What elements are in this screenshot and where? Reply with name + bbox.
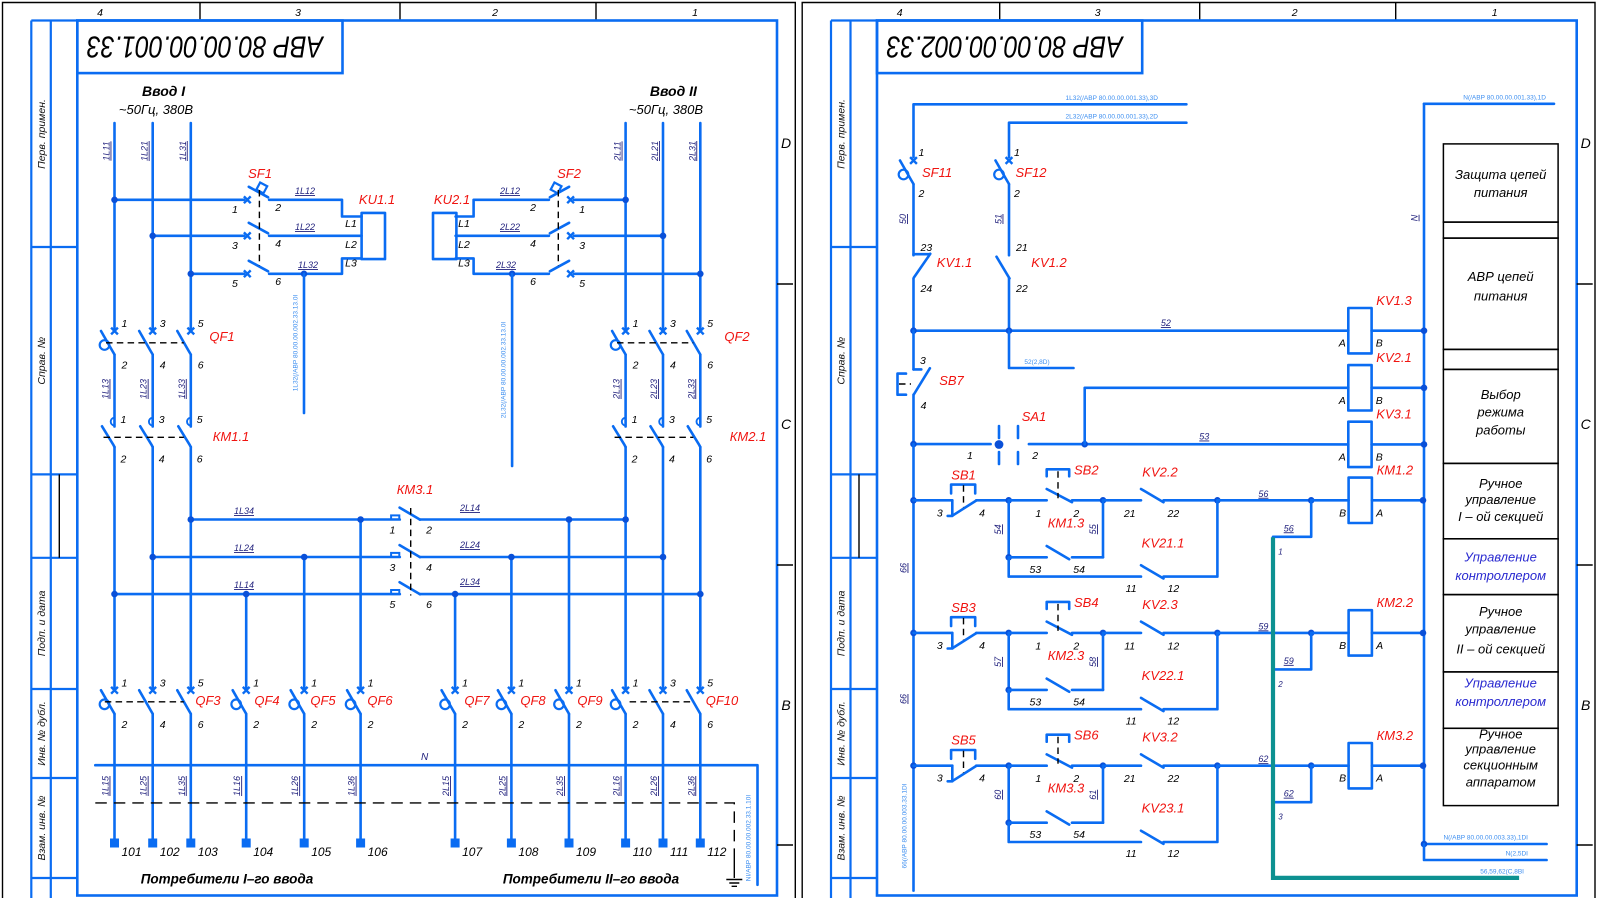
load 104 (242, 839, 274, 860)
junction (1214, 762, 1221, 769)
svg-text:1: 1 (462, 677, 468, 689)
svg-text:КМ1.3: КМ1.3 (1048, 515, 1085, 530)
svg-text:КМ1.2: КМ1.2 (1377, 463, 1414, 478)
description box protection (1443, 144, 1558, 222)
junction (1005, 687, 1012, 694)
wire stub 1L32 to sheet 2 (293, 274, 305, 413)
svg-text:3: 3 (920, 355, 926, 367)
svg-text:6: 6 (275, 276, 281, 288)
svg-text:QF7: QF7 (464, 693, 490, 708)
junction (910, 441, 917, 448)
junction N return КМ1.2 (1420, 497, 1427, 504)
svg-text:Выбор: Выбор (1481, 387, 1521, 402)
strip connector line (858, 474, 860, 557)
svg-text:2: 2 (631, 454, 638, 466)
svg-text:2L31: 2L31 (687, 141, 697, 162)
wire 2L26 to load 111 (649, 714, 663, 838)
svg-text:2: 2 (632, 719, 639, 731)
wire reference N from sheet 1 (1424, 95, 1554, 104)
junction (1005, 554, 1012, 561)
svg-text:2: 2 (121, 719, 128, 731)
svg-text:2: 2 (1291, 7, 1298, 19)
circuit breaker QF5 (289, 677, 336, 731)
load 105 (300, 839, 332, 860)
svg-text:53: 53 (1030, 564, 1042, 576)
svg-text:2: 2 (367, 719, 374, 731)
pushbutton SB6 (1009, 728, 1103, 786)
contactor coil КМ3.2 (1311, 728, 1423, 788)
svg-text:104: 104 (253, 845, 273, 859)
drawing frame (77, 21, 777, 896)
svg-text:2L21: 2L21 (650, 141, 660, 162)
svg-text:работы: работы (1475, 423, 1526, 438)
circuit breaker QF7 (440, 677, 490, 731)
load 111 (659, 839, 689, 860)
svg-text:QF5: QF5 (310, 693, 336, 708)
svg-text:L3: L3 (458, 258, 470, 270)
wire 2L25 to load 108 (497, 714, 511, 838)
svg-text:66: 66 (899, 563, 909, 573)
svg-text:Справ. №: Справ. № (836, 337, 848, 385)
description box manual section I (1443, 463, 1558, 538)
svg-text:2: 2 (632, 360, 639, 372)
svg-text:51: 51 (994, 214, 1004, 224)
svg-text:A: A (1375, 507, 1383, 519)
wire SF1 pole2 from bus 1L21 (153, 235, 244, 238)
junction (1308, 762, 1315, 769)
svg-text:KV3.1: KV3.1 (1376, 407, 1411, 422)
svg-text:22: 22 (1015, 283, 1028, 295)
svg-text:КМ3.2: КМ3.2 (1377, 728, 1414, 743)
svg-text:1: 1 (389, 525, 395, 537)
svg-text:QF9: QF9 (577, 693, 602, 708)
load 108 (507, 839, 539, 860)
wire reference 2L32 from sheet 1 (1009, 114, 1186, 158)
svg-text:57: 57 (993, 656, 1003, 667)
svg-text:C: C (781, 416, 792, 432)
auxiliary contact КМ1.3 (1009, 500, 1103, 576)
load 107 (451, 839, 484, 860)
svg-text:3: 3 (579, 240, 585, 252)
description box controller control I (1443, 539, 1558, 595)
sheet outer black border (802, 3, 1595, 898)
wire stub 2L32 to sheet 2 (500, 274, 512, 466)
svg-text:2L22: 2L22 (499, 222, 520, 232)
wire step 59 to controller line (1273, 633, 1311, 689)
svg-text:KV1.2: KV1.2 (1031, 255, 1067, 270)
svg-text:QF4: QF4 (254, 693, 279, 708)
junction node 624 (1005, 762, 1012, 769)
circuit breaker QF9 (554, 677, 602, 731)
svg-text:2: 2 (918, 188, 925, 200)
description box ABP supply (1443, 238, 1558, 349)
svg-text:контроллером: контроллером (1455, 568, 1546, 583)
svg-text:KU1.1: KU1.1 (359, 192, 395, 207)
pushbutton SB2 (1009, 462, 1103, 520)
svg-text:SF1: SF1 (248, 166, 272, 181)
junction 2L34 at KM2.1 pole3 (697, 591, 704, 598)
svg-text:2: 2 (517, 719, 524, 731)
svg-text:A: A (1338, 451, 1346, 463)
svg-text:4: 4 (159, 454, 165, 466)
svg-text:QF6: QF6 (367, 693, 393, 708)
controller line green (1273, 537, 1519, 878)
svg-text:SB1: SB1 (951, 467, 976, 482)
wire 51 (994, 185, 1010, 256)
wire KV1.1 to bus 52 (912, 278, 915, 330)
svg-text:2L35: 2L35 (555, 775, 565, 797)
svg-text:контроллером: контроллером (1455, 694, 1546, 709)
load 112 (696, 839, 727, 860)
svg-text:2: 2 (252, 719, 259, 731)
junction (1214, 497, 1221, 504)
svg-text:66(/АВР 80.00.00.003.33.1DI: 66(/АВР 80.00.00.003.33.1DI (902, 783, 909, 868)
junction (1214, 630, 1221, 637)
left column strip (831, 21, 877, 898)
pushbutton SB1 (914, 467, 1009, 519)
svg-text:4: 4 (979, 640, 985, 652)
svg-text:N(2,5DI: N(2,5DI (1506, 851, 1529, 858)
pushbutton SB7 (898, 331, 965, 444)
svg-text:KU2.1: KU2.1 (434, 192, 470, 207)
svg-text:1L12: 1L12 (295, 186, 315, 196)
wire KV1.2 to bus 52 (1008, 278, 1011, 330)
svg-text:3: 3 (159, 414, 165, 426)
svg-text:АВР 80.00.00.001.33: АВР 80.00.00.001.33 (87, 30, 325, 65)
svg-text:B: B (1339, 507, 1346, 519)
wire KM1.1 pole3 down (190, 447, 193, 690)
svg-text:II – ой секцией: II – ой секцией (1456, 642, 1545, 657)
svg-text:2L12: 2L12 (499, 186, 520, 196)
wire reference N to sheet 3 (1424, 835, 1547, 845)
wire drop to QF6 (359, 520, 362, 691)
wire 2L16 to load 110 (612, 714, 626, 838)
svg-text:N(/АВР 80.00.00.003.33),1DI: N(/АВР 80.00.00.003.33),1DI (1443, 835, 1528, 842)
svg-text:SB6: SB6 (1074, 728, 1099, 743)
wire 1L23 (139, 355, 153, 427)
junction (1421, 385, 1428, 392)
junction node 594 (1005, 630, 1012, 637)
svg-text:2L15: 2L15 (441, 775, 451, 797)
svg-text:1: 1 (633, 318, 639, 330)
svg-text:~50Гц, 380В: ~50Гц, 380В (119, 102, 193, 117)
svg-text:3: 3 (1278, 813, 1283, 822)
svg-text:2L32(/АВР 80.00.00.002.33.13.0: 2L32(/АВР 80.00.00.002.33.13.0I (500, 322, 507, 419)
svg-text:1L15: 1L15 (101, 775, 111, 796)
svg-text:6: 6 (197, 454, 203, 466)
junction (1006, 327, 1013, 334)
junction (1421, 441, 1428, 448)
wire 2L24 (420, 540, 663, 557)
wire 2L14 (420, 503, 626, 520)
svg-text:B: B (1376, 451, 1383, 463)
junction N return КМ3.2 (1420, 762, 1427, 769)
svg-text:B: B (1376, 395, 1383, 407)
svg-text:SB7: SB7 (939, 373, 964, 388)
bus 2L31 (699, 123, 702, 331)
pushbutton SB5 (914, 733, 1009, 785)
svg-text:112: 112 (707, 845, 726, 859)
svg-text:3: 3 (160, 677, 166, 689)
svg-text:2L13: 2L13 (612, 379, 622, 400)
svg-text:3: 3 (669, 414, 675, 426)
svg-text:1: 1 (633, 677, 639, 689)
junction (1308, 630, 1315, 637)
svg-text:1: 1 (1035, 640, 1041, 652)
ground (726, 880, 742, 887)
bus 1L11 (113, 123, 116, 331)
pushbutton SB3 (914, 600, 1009, 652)
svg-text:52(2,8D): 52(2,8D) (1024, 359, 1049, 366)
svg-text:I – ой секцией: I – ой секцией (1458, 509, 1543, 524)
svg-text:2: 2 (310, 719, 317, 731)
circuit breaker QF1 (100, 318, 235, 372)
svg-text:1L35: 1L35 (177, 775, 187, 796)
wire reference N 2 5D (1424, 844, 1547, 860)
svg-text:QF2: QF2 (724, 329, 750, 344)
junction 53 to KV2.1 (1081, 441, 1088, 448)
svg-text:1L32(/АВР 80.00.00.001.33),3D: 1L32(/АВР 80.00.00.001.33),3D (1065, 95, 1158, 102)
svg-text:1L16: 1L16 (232, 776, 242, 796)
svg-text:Подп. и дата: Подп. и дата (836, 590, 848, 656)
svg-text:QF3: QF3 (195, 693, 221, 708)
wire KM2.1 pole1 down (624, 447, 627, 690)
wire drop to QF4 (245, 594, 248, 690)
bus tie contactor KM3.1 (389, 482, 433, 611)
svg-text:SB2: SB2 (1074, 462, 1099, 477)
relay coil KV3.1 (1338, 407, 1424, 467)
relay contact KV23.1 (1009, 766, 1218, 861)
junction (1100, 762, 1107, 769)
svg-text:Потребители I–го ввода: Потребители I–го ввода (141, 872, 314, 887)
svg-text:56: 56 (1258, 489, 1268, 499)
svg-text:110: 110 (633, 845, 652, 859)
circuit breaker QF2 (611, 318, 751, 372)
wire KM1.1 pole2 down (151, 447, 154, 690)
svg-text:1L36: 1L36 (347, 776, 357, 796)
svg-text:B: B (1339, 773, 1346, 785)
svg-text:A: A (1338, 338, 1346, 350)
svg-text:2L32(/АВР 80.00.00.001.33),2D: 2L32(/АВР 80.00.00.001.33),2D (1065, 114, 1158, 121)
svg-text:2L34: 2L34 (459, 577, 480, 587)
svg-text:55: 55 (1088, 523, 1098, 534)
svg-text:4: 4 (160, 360, 166, 372)
wire SF1 pole1 from bus 1L11 (115, 199, 245, 202)
svg-text:5: 5 (706, 414, 712, 426)
svg-text:3: 3 (937, 507, 943, 519)
wire 59 (1217, 621, 1311, 633)
svg-text:KV23.1: KV23.1 (1142, 801, 1185, 816)
PE dashed link (95, 803, 734, 852)
svg-text:КМ2.2: КМ2.2 (1377, 595, 1414, 610)
svg-text:1: 1 (518, 677, 524, 689)
relay contact KV21.1 (1009, 500, 1218, 595)
wire drop to QF7 (454, 594, 457, 690)
svg-text:2L25: 2L25 (497, 775, 507, 797)
svg-text:NI/АВР 80.00.00.002.33.1.10I: NI/АВР 80.00.00.002.33.1.10I (746, 795, 753, 882)
wire 1L36 to load 106 (347, 714, 361, 838)
wire KM2.1 pole2 down (662, 447, 665, 690)
svg-text:B: B (1376, 338, 1383, 350)
svg-text:22: 22 (1167, 773, 1180, 785)
wire 66 section (899, 444, 914, 890)
svg-text:2: 2 (1013, 188, 1020, 200)
wire 1L26 to load 105 (290, 714, 304, 838)
svg-text:D: D (781, 135, 791, 151)
svg-text:54: 54 (1073, 696, 1085, 708)
wire 2L34 (420, 577, 701, 594)
svg-text:3: 3 (937, 640, 943, 652)
svg-text:111: 111 (670, 845, 688, 859)
wire 2L32 (456, 258, 549, 273)
relay contact KV2.2 (1103, 464, 1217, 520)
junction (1308, 497, 1315, 504)
svg-text:1L24: 1L24 (234, 543, 254, 553)
svg-text:56,59,62(C,8BI: 56,59,62(C,8BI (1480, 869, 1524, 876)
wire 2L23 (649, 355, 663, 427)
wire drop to QF9 (568, 520, 571, 691)
relay contact KV3.2 (1103, 730, 1217, 786)
contactor KM2.1 (613, 414, 766, 466)
svg-text:1L14: 1L14 (234, 580, 254, 590)
circuit breaker SF11 (899, 147, 952, 200)
wire 1L12 (269, 186, 362, 217)
wire branch 53 (993, 766, 1009, 823)
svg-text:2L16: 2L16 (612, 776, 622, 797)
svg-text:L2: L2 (458, 239, 470, 251)
svg-text:1L32: 1L32 (298, 260, 318, 270)
relay coil KV1.3 (1338, 293, 1424, 353)
svg-text:~50Гц, 380В: ~50Гц, 380В (629, 102, 703, 117)
wire SF1 pole3 from bus 1L31 (191, 272, 244, 275)
wire 1L24 (153, 543, 400, 557)
wire 2L22 (456, 222, 549, 236)
svg-text:1L11: 1L11 (102, 141, 112, 160)
svg-text:1: 1 (122, 318, 128, 330)
svg-text:6: 6 (706, 454, 712, 466)
svg-text:62: 62 (1284, 789, 1294, 799)
circuit breaker QF4 (231, 677, 279, 731)
wire branch 52 (993, 633, 1009, 690)
svg-text:1: 1 (253, 677, 259, 689)
zone ticks right edge (777, 284, 793, 845)
wire 1L34 (191, 506, 400, 520)
svg-text:KV1.1: KV1.1 (937, 255, 972, 270)
svg-text:Инв. № дубл.: Инв. № дубл. (36, 701, 48, 766)
svg-text:6: 6 (707, 719, 713, 731)
wire 50 (898, 185, 914, 256)
svg-text:SF11: SF11 (922, 165, 952, 180)
auxiliary contact КМ3.3 (1009, 766, 1103, 842)
svg-text:1: 1 (1035, 773, 1041, 785)
svg-text:12: 12 (1168, 640, 1180, 652)
svg-text:54: 54 (1073, 564, 1085, 576)
svg-text:4: 4 (669, 454, 675, 466)
svg-text:12: 12 (1168, 715, 1180, 727)
svg-text:KV1.3: KV1.3 (1376, 293, 1412, 308)
svg-text:аппаратом: аппаратом (1466, 774, 1536, 789)
contactor coil КМ2.2 (1311, 595, 1423, 655)
circuit breaker QF6 (346, 677, 394, 731)
svg-text:56: 56 (1284, 523, 1294, 533)
wire 2L33 (686, 355, 700, 427)
svg-text:управление: управление (1464, 622, 1536, 637)
wire 1L33 (177, 355, 191, 427)
svg-text:Ручное: Ручное (1479, 604, 1523, 619)
bus 2L21 (662, 123, 665, 331)
svg-text:Ручное: Ручное (1479, 727, 1523, 742)
svg-text:3: 3 (295, 7, 301, 19)
svg-text:4: 4 (426, 562, 432, 574)
wire 2L12 (456, 186, 549, 217)
svg-text:21: 21 (1123, 773, 1136, 785)
svg-text:59: 59 (1258, 621, 1268, 631)
svg-text:N: N (421, 752, 429, 763)
svg-text:2: 2 (575, 719, 582, 731)
svg-text:5: 5 (707, 318, 713, 330)
svg-text:QF8: QF8 (520, 693, 546, 708)
svg-text:50: 50 (898, 214, 908, 224)
wire drop to QF8 (510, 557, 513, 690)
svg-text:5: 5 (198, 318, 204, 330)
svg-text:1: 1 (1278, 547, 1282, 556)
wire stub 52 reference (1009, 331, 1074, 368)
svg-text:52: 52 (1161, 318, 1171, 328)
svg-text:1L32(/АВР 80.00.00.002.33.13.0: 1L32(/АВР 80.00.00.002.33.13.0I (293, 295, 300, 392)
svg-text:2: 2 (1277, 680, 1283, 689)
svg-text:L2: L2 (345, 239, 357, 251)
svg-text:L1: L1 (458, 218, 470, 230)
svg-text:1L23: 1L23 (139, 379, 149, 399)
voltage monitor KU2.1 (433, 192, 470, 270)
junction (1005, 819, 1012, 826)
junction (910, 497, 917, 504)
svg-text:11: 11 (1124, 640, 1135, 652)
svg-text:4: 4 (921, 400, 927, 412)
svg-text:1: 1 (1035, 508, 1041, 520)
svg-text:4: 4 (530, 238, 536, 250)
wire step 56 to controller line (1273, 500, 1311, 556)
wire KM2.1 pole3 down (699, 447, 702, 690)
svg-text:1: 1 (967, 450, 973, 462)
svg-text:АВР 80.00.00.002.33: АВР 80.00.00.002.33 (887, 30, 1125, 65)
junction 2L32 tap (509, 271, 516, 278)
bus 52 (914, 318, 1349, 331)
svg-text:4: 4 (979, 773, 985, 785)
svg-text:секционным: секционным (1463, 757, 1538, 772)
svg-text:1: 1 (1492, 7, 1498, 19)
load 102 (148, 839, 180, 860)
bus 1L31 (190, 123, 193, 331)
svg-text:24: 24 (920, 283, 933, 295)
svg-text:53: 53 (1030, 829, 1042, 841)
junction 2L24 at KM2.1 pole2 (660, 554, 667, 561)
pushbutton SB4 (1009, 595, 1103, 653)
contactor KM1.1 (102, 414, 249, 466)
svg-text:53: 53 (1199, 432, 1209, 442)
svg-text:58: 58 (1088, 657, 1098, 667)
svg-text:KV2.1: KV2.1 (1376, 350, 1411, 365)
svg-text:A: A (1338, 395, 1346, 407)
wire 1L25 to load 102 (139, 714, 153, 838)
svg-text:107: 107 (462, 845, 483, 859)
zone ticks right edge (1577, 284, 1593, 845)
svg-text:Перв. примен.: Перв. примен. (36, 99, 48, 169)
svg-text:5: 5 (389, 599, 395, 611)
wire 2L36 to load 112 (686, 714, 700, 838)
svg-text:B: B (1581, 697, 1590, 713)
junction (1100, 630, 1107, 637)
